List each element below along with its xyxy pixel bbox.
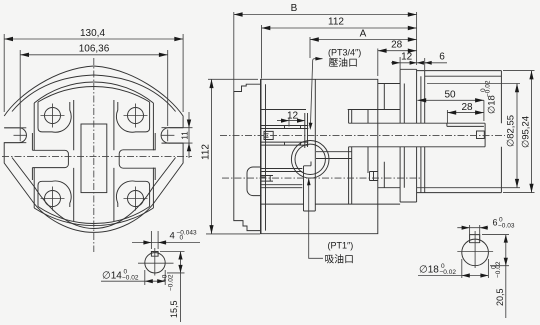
pocket TL J-curve xyxy=(38,102,71,132)
right ear slot center cross xyxy=(161,130,175,142)
svg-text:−0.03: −0.03 xyxy=(498,223,515,230)
body top arch outer xyxy=(34,82,153,103)
plate internal hidden lines xyxy=(404,76,421,192)
pocket BL J-curve xyxy=(38,181,71,207)
svg-text:12: 12 xyxy=(287,111,299,122)
svg-text:壓油口: 壓油口 xyxy=(329,56,358,69)
rear pin xyxy=(370,172,379,181)
svg-text:(PT1″): (PT1″) xyxy=(328,241,354,251)
screw TR xyxy=(124,104,148,128)
upper bearing bore lines xyxy=(261,126,309,146)
body bottom arch outer xyxy=(34,208,153,226)
screw BL xyxy=(41,187,65,211)
spacer internal lines xyxy=(368,84,400,205)
body internal horizontals xyxy=(261,110,378,205)
right ear slot xyxy=(161,128,183,143)
svg-text:−0.02: −0.02 xyxy=(440,269,457,276)
flange plate profile xyxy=(234,84,261,230)
plate A (12mm) xyxy=(400,69,417,202)
spacer block (bearing carrier) xyxy=(378,84,400,188)
keyway on shaft xyxy=(447,123,484,126)
pocket TR J-curve xyxy=(116,102,149,132)
body bottom arch inner xyxy=(38,207,150,224)
svg-text:20,5: 20,5 xyxy=(495,288,505,306)
dim 20,5 vertical xyxy=(482,235,509,318)
upper bore step lines xyxy=(285,126,301,146)
dim 4 key width xyxy=(132,231,200,249)
left mid slot open left xyxy=(32,150,68,167)
key slot xyxy=(470,235,480,243)
horizontal centerline xyxy=(2,156,192,158)
shaft xyxy=(349,123,486,147)
body side edges xyxy=(32,103,155,208)
inner offset arc top xyxy=(12,75,176,112)
svg-text:B: B xyxy=(291,3,298,14)
svg-text:∅14: ∅14 xyxy=(102,271,122,282)
svg-text:28: 28 xyxy=(391,39,403,50)
svg-text:106,36: 106,36 xyxy=(79,44,110,55)
main body outline xyxy=(261,79,378,233)
horizontal line through circle xyxy=(138,262,174,264)
center hole at shaft end xyxy=(477,131,485,139)
svg-text:(PT3/4″): (PT3/4″) xyxy=(328,48,361,58)
outer flange outline xyxy=(4,66,183,201)
gear circle inner xyxy=(295,144,325,174)
svg-text:+0: +0 xyxy=(162,274,169,282)
dim 6 key width xyxy=(457,225,488,240)
lower axis centerline xyxy=(222,177,420,179)
vertical line through circle xyxy=(474,231,476,268)
vertical line through circle xyxy=(154,248,156,276)
svg-text:15,5: 15,5 xyxy=(169,300,179,318)
left ear slot xyxy=(4,128,26,143)
pressure port leader xyxy=(310,59,322,127)
rear cover xyxy=(417,71,502,193)
svg-text:11: 11 xyxy=(181,131,190,140)
screw TL xyxy=(41,104,65,128)
suction port leader xyxy=(309,179,323,259)
svg-text:∅82,55: ∅82,55 xyxy=(506,115,517,147)
pocket flank verticals xyxy=(74,100,114,221)
dim 15,5 vertical xyxy=(160,252,185,323)
svg-text:6: 6 xyxy=(439,52,445,63)
suction boss on flange left xyxy=(247,167,262,196)
rear cover rim line (6mm) xyxy=(425,71,502,193)
svg-text:∅95,24: ∅95,24 xyxy=(521,116,532,148)
outer flange bottom arc xyxy=(32,201,156,233)
pocket BR J-curve xyxy=(116,181,149,207)
svg-text:0: 0 xyxy=(180,235,184,242)
lower plug xyxy=(261,176,273,182)
screw BR xyxy=(124,187,148,211)
upper plug xyxy=(264,131,273,139)
svg-text:4: 4 xyxy=(170,231,175,242)
svg-text:A: A xyxy=(360,29,367,40)
upper axis centerline xyxy=(220,134,505,136)
svg-text:吸油口: 吸油口 xyxy=(325,253,354,266)
svg-text:−0.02: −0.02 xyxy=(122,275,139,282)
suction passage xyxy=(304,162,316,212)
body top arch inner xyxy=(38,86,150,102)
dim ⌀18 xyxy=(418,259,488,278)
key slot xyxy=(151,252,158,254)
dim ⌀14 xyxy=(101,270,165,285)
svg-text:12: 12 xyxy=(401,52,413,63)
central rectangle xyxy=(81,124,107,193)
body internal verticals xyxy=(305,79,352,211)
svg-text:50: 50 xyxy=(444,90,456,101)
right mid slot open right xyxy=(119,150,155,168)
svg-text:0: 0 xyxy=(491,265,498,269)
svg-text:−0.02: −0.02 xyxy=(168,274,175,291)
shaft circle xyxy=(145,253,165,273)
shaft circle xyxy=(462,239,489,266)
lower bearing bore lines xyxy=(262,169,303,188)
svg-text:130,4: 130,4 xyxy=(80,28,105,39)
body front plate double line xyxy=(261,79,266,233)
svg-text:0: 0 xyxy=(480,88,487,92)
left ear slot center cross xyxy=(14,130,28,142)
svg-text:∅18: ∅18 xyxy=(419,265,439,276)
gear circle outer xyxy=(291,141,329,179)
svg-text:6: 6 xyxy=(493,218,498,228)
svg-text:112: 112 xyxy=(201,144,212,160)
svg-text:28: 28 xyxy=(461,102,473,113)
horizontal line through circle xyxy=(457,251,493,253)
inner offset arc bottom xyxy=(12,158,176,229)
svg-text:112: 112 xyxy=(328,17,344,28)
vertical centerline xyxy=(93,58,95,252)
